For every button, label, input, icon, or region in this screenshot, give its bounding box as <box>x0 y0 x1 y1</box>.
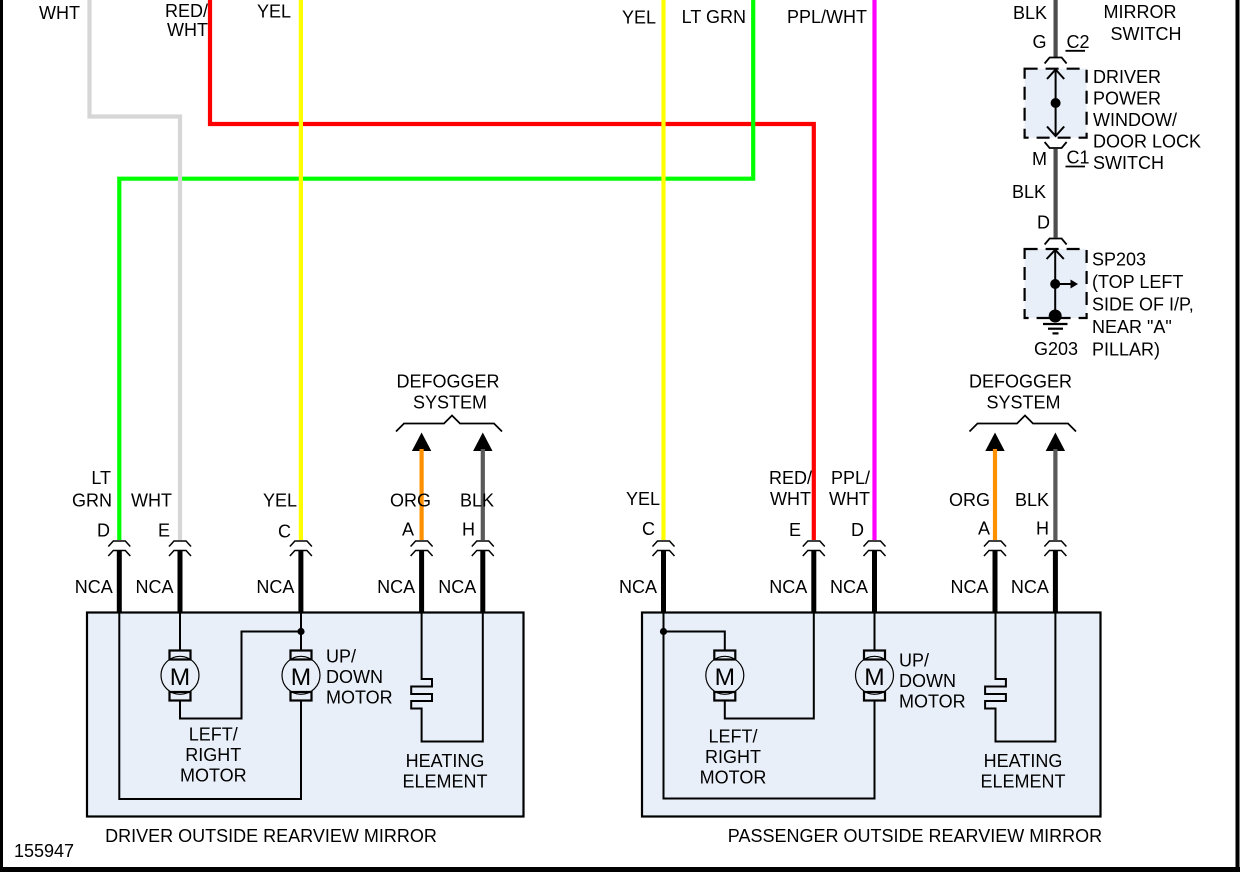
svg-text:SYSTEM: SYSTEM <box>986 393 1060 413</box>
label LEFT/RIGHT MOTOR (driver) <box>180 725 247 786</box>
svg-text:DRIVER: DRIVER <box>1093 67 1161 87</box>
svg-text:DOOR LOCK: DOOR LOCK <box>1093 132 1201 152</box>
svg-text:ORG: ORG <box>949 490 990 510</box>
wire pin D into up/down motor (passenger) <box>874 613 876 650</box>
wire ORG (driver pin A) <box>420 449 424 540</box>
driver power window / door lock switch U1 (dashed box) <box>1025 69 1087 138</box>
svg-text:DOWN: DOWN <box>899 671 956 691</box>
passenger outside rearview mirror box <box>642 613 1101 817</box>
wire stub pin E passenger <box>811 551 816 615</box>
left/right motor M (driver) <box>161 651 199 701</box>
svg-text:NCA: NCA <box>135 577 173 597</box>
svg-text:DRIVER OUTSIDE REARVIEW MIRROR: DRIVER OUTSIDE REARVIEW MIRROR <box>105 826 437 846</box>
brace to defogger system (passenger) <box>970 416 1077 432</box>
svg-text:H: H <box>1036 519 1049 539</box>
svg-text:MOTOR: MOTOR <box>899 692 966 712</box>
svg-text:ELEMENT: ELEMENT <box>980 772 1065 792</box>
svg-text:C2: C2 <box>1067 32 1090 52</box>
wire stub pin D passenger <box>872 551 877 615</box>
wire stub pin E driver <box>178 551 183 615</box>
svg-text:SP203: SP203 <box>1092 250 1146 270</box>
up/down motor M (passenger) <box>856 651 894 701</box>
svg-text:RIGHT: RIGHT <box>705 747 761 767</box>
svg-text:HEATING: HEATING <box>406 751 485 771</box>
label LEFT/RIGHT MOTOR (passenger) <box>700 727 767 788</box>
svg-text:RED/: RED/ <box>165 1 208 21</box>
left/right motor M (passenger) <box>706 651 744 701</box>
svg-text:LT GRN: LT GRN <box>682 7 746 27</box>
label SP203 (TOP LEFT SIDE OF I/P, NEAR "A" PILLAR) <box>1092 250 1194 360</box>
wire junction to left/right motor (passenger) <box>664 632 725 651</box>
svg-text:BLK: BLK <box>460 491 494 511</box>
svg-text:G203: G203 <box>1034 339 1078 359</box>
junction node (driver) <box>297 628 304 635</box>
svg-text:DEFOGGER: DEFOGGER <box>969 372 1072 392</box>
connector pin H driver mirror <box>472 541 494 556</box>
svg-text:A: A <box>978 519 990 539</box>
junction node (passenger) <box>660 628 667 635</box>
wire stub pin A passenger <box>993 551 998 615</box>
svg-text:RIGHT: RIGHT <box>185 745 241 765</box>
arrow to defogger (passenger BLK) <box>1046 433 1065 452</box>
label HEATING ELEMENT (driver) <box>402 751 487 792</box>
svg-text:BLK: BLK <box>1012 182 1046 202</box>
svg-text:C: C <box>642 519 655 539</box>
svg-text:WHT: WHT <box>770 489 811 509</box>
wire stub pin A driver <box>419 551 424 615</box>
svg-text:LEFT/: LEFT/ <box>189 725 238 745</box>
svg-text:(TOP LEFT: (TOP LEFT <box>1092 272 1183 292</box>
svg-text:NCA: NCA <box>769 577 807 597</box>
svg-text:MOTOR: MOTOR <box>700 768 767 788</box>
svg-text:NEAR "A": NEAR "A" <box>1092 317 1172 337</box>
wire stub pin C passenger <box>661 551 666 615</box>
svg-text:YEL: YEL <box>263 491 297 511</box>
svg-text:NCA: NCA <box>377 577 415 597</box>
svg-text:NCA: NCA <box>830 577 868 597</box>
svg-text:ELEMENT: ELEMENT <box>402 772 487 792</box>
wire stub pin C driver <box>298 551 303 615</box>
svg-text:PASSENGER OUTSIDE REARVIEW MIR: PASSENGER OUTSIDE REARVIEW MIRROR <box>728 826 1102 846</box>
connector pin A passenger mirror <box>984 541 1006 556</box>
svg-text:WHT: WHT <box>829 489 870 509</box>
arrow to defogger (passenger ORG) <box>985 433 1004 452</box>
connector pin C passenger mirror <box>653 541 675 556</box>
svg-text:H: H <box>462 520 475 540</box>
wire stub pin D driver <box>117 551 122 615</box>
svg-text:NCA: NCA <box>950 577 988 597</box>
connector pin E passenger mirror <box>803 541 825 556</box>
svg-text:E: E <box>158 521 170 541</box>
svg-text:POWER: POWER <box>1093 89 1161 109</box>
svg-text:RED/: RED/ <box>769 468 812 488</box>
wire pin C into junction <box>300 613 302 650</box>
heating element (driver) <box>411 613 483 742</box>
wire pin E into left/right motor <box>179 613 181 650</box>
svg-text:NCA: NCA <box>438 577 476 597</box>
wire LT GRN (driver mirror pin D) <box>119 0 753 540</box>
svg-text:SYSTEM: SYSTEM <box>413 393 487 413</box>
svg-text:PPL/WHT: PPL/WHT <box>787 7 867 27</box>
connector C1 <box>1045 142 1067 148</box>
svg-text:PILLAR): PILLAR) <box>1092 340 1160 360</box>
connector C2 <box>1045 58 1067 64</box>
wire pin D inside driver box <box>119 613 301 799</box>
label UP/DOWN MOTOR (driver) <box>326 647 393 708</box>
wire stub pin H driver <box>480 551 485 615</box>
svg-text:M: M <box>864 664 884 691</box>
arrow to defogger (driver BLK) <box>473 433 492 452</box>
svg-text:155947: 155947 <box>14 841 74 861</box>
connector pin E driver mirror <box>169 541 191 556</box>
svg-text:GRN: GRN <box>72 491 112 511</box>
svg-text:ORG: ORG <box>390 491 431 511</box>
svg-text:WINDOW/: WINDOW/ <box>1093 110 1177 130</box>
svg-text:YEL: YEL <box>622 8 656 28</box>
connector pin A driver mirror <box>411 541 433 556</box>
connector pin H passenger mirror <box>1044 541 1066 556</box>
svg-text:D: D <box>1037 213 1050 233</box>
brace to defogger system (driver) <box>396 416 502 432</box>
ground G203 <box>1043 324 1068 333</box>
svg-text:MOTOR: MOTOR <box>326 688 393 708</box>
svg-text:NCA: NCA <box>1011 577 1049 597</box>
svg-text:SWITCH: SWITCH <box>1093 153 1164 173</box>
wire BLK (switch to SP203) <box>1053 149 1057 238</box>
svg-text:LEFT/: LEFT/ <box>708 727 757 747</box>
svg-text:D: D <box>97 521 110 541</box>
svg-text:M: M <box>170 664 190 691</box>
wire PPL/WHT (passenger mirror pin D) <box>872 0 876 540</box>
wire stub pin H passenger <box>1053 551 1058 615</box>
svg-text:WHT: WHT <box>167 20 208 40</box>
wire junction down to up/down motor (passenger) <box>664 632 875 799</box>
svg-text:MOTOR: MOTOR <box>180 766 247 786</box>
svg-text:BLK: BLK <box>1015 490 1049 510</box>
svg-text:NCA: NCA <box>256 577 294 597</box>
connector at SP203 <box>1045 239 1067 245</box>
svg-text:BLK: BLK <box>1013 3 1047 23</box>
driver outside rearview mirror box <box>87 613 524 817</box>
up/down motor M (driver) <box>282 651 320 701</box>
svg-text:NCA: NCA <box>619 577 657 597</box>
svg-text:DOWN: DOWN <box>326 667 383 687</box>
svg-text:YEL: YEL <box>257 2 291 22</box>
label DRIVER POWER WINDOW/DOOR LOCK SWITCH <box>1093 67 1201 173</box>
label UP/DOWN MOTOR (passenger) <box>899 651 966 712</box>
svg-text:UP/: UP/ <box>326 647 356 667</box>
svg-text:YEL: YEL <box>626 489 660 509</box>
wire pin C into junction (passenger) <box>663 613 665 632</box>
svg-text:SIDE OF I/P,: SIDE OF I/P, <box>1092 295 1194 315</box>
wire BLK (passenger pin H) <box>1053 449 1057 540</box>
svg-text:C: C <box>278 522 291 542</box>
svg-text:M: M <box>1032 149 1047 169</box>
wire ORG (passenger pin A) <box>993 449 997 540</box>
wire WHT (driver mirror pin E) <box>90 0 181 540</box>
svg-text:UP/: UP/ <box>899 651 929 671</box>
left/right motor loop wire (driver) <box>180 632 298 719</box>
wire BLK from mirror switch <box>1053 0 1057 57</box>
svg-text:G: G <box>1032 32 1046 52</box>
svg-text:DEFOGGER: DEFOGGER <box>396 372 499 392</box>
label HEATING ELEMENT (passenger) <box>980 751 1065 792</box>
svg-text:WHT: WHT <box>39 3 80 23</box>
svg-text:M: M <box>291 664 311 691</box>
wire RED/WHT (passenger mirror pin E) <box>210 0 814 540</box>
svg-text:M: M <box>715 664 735 691</box>
splice SP203 (dashed box) <box>1025 249 1087 323</box>
arrow to defogger (driver ORG) <box>412 433 431 452</box>
svg-text:C1: C1 <box>1067 148 1090 168</box>
svg-text:MIRROR: MIRROR <box>1104 2 1177 22</box>
svg-text:NCA: NCA <box>75 577 113 597</box>
connector pin D passenger mirror <box>864 541 886 556</box>
heating element (passenger) <box>985 613 1055 742</box>
svg-text:SWITCH: SWITCH <box>1111 24 1182 44</box>
connector pin C driver mirror <box>290 541 312 556</box>
svg-text:LT: LT <box>91 468 111 488</box>
wire YEL (driver mirror pin C) <box>299 0 303 540</box>
left/right motor loop to pin E (passenger) <box>725 613 814 719</box>
svg-text:WHT: WHT <box>131 491 172 511</box>
svg-text:A: A <box>402 520 414 540</box>
svg-text:PPL/: PPL/ <box>831 468 870 488</box>
svg-text:E: E <box>789 520 801 540</box>
svg-text:D: D <box>851 520 864 540</box>
connector pin D driver mirror <box>108 541 130 556</box>
wire BLK (driver pin H) <box>481 449 485 540</box>
svg-text:HEATING: HEATING <box>984 751 1063 771</box>
wire YEL (passenger mirror pin C) <box>661 0 665 540</box>
